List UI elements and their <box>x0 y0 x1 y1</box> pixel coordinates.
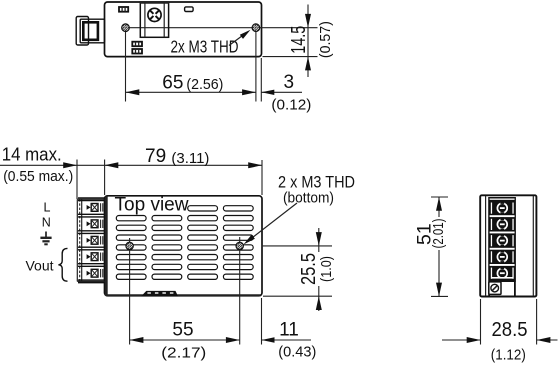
side vent bottom row 1 <box>132 42 142 47</box>
end view body outline <box>480 195 536 296</box>
terminal 2 screw clamp <box>87 221 91 226</box>
vent slot r5c3 <box>188 245 218 250</box>
svg-text:(1.12): (1.12) <box>491 346 526 363</box>
vent slot r2c2 <box>152 216 182 221</box>
dim 28.5 extension lines <box>480 299 482 345</box>
potentiometer housing <box>140 2 168 37</box>
vent slot r7c4 <box>223 264 253 269</box>
terminal strip block <box>488 197 516 282</box>
svg-text:2x M3 THD: 2x M3 THD <box>171 37 239 57</box>
potentiometer screw head <box>148 8 161 21</box>
leader arrow to screw (side) <box>229 33 246 46</box>
vent slot r7c1 <box>116 264 146 269</box>
terminal 3 screw clamp <box>87 238 91 243</box>
svg-text:14 max.: 14 max. <box>2 144 62 164</box>
earth screw <box>489 282 501 295</box>
extension lines top view <box>76 160 78 200</box>
vent slot r6c4 <box>223 255 253 260</box>
body right edge extension <box>260 58 262 102</box>
svg-text:3: 3 <box>284 72 295 93</box>
terminal separator 6 <box>78 279 105 281</box>
terminal 5 screw clamp <box>87 271 91 276</box>
svg-text:Vout: Vout <box>26 257 54 273</box>
LED window <box>185 7 194 12</box>
end terminal 3 <box>490 248 515 250</box>
vent slot r8c4 <box>223 274 253 279</box>
top view bottom edge (thick) <box>106 294 261 296</box>
vent slot r8c2 <box>152 274 182 279</box>
side vent bottom row 2 <box>132 49 142 54</box>
vent slot r5c4 <box>223 245 253 250</box>
vent slot r7c2 <box>152 264 182 269</box>
vent slot r4c3 <box>188 235 218 240</box>
dim 79 arrows <box>105 162 119 168</box>
vent slot r6c2 <box>152 255 182 260</box>
svg-text:L: L <box>44 200 51 214</box>
vent slot r4c1 <box>116 235 146 240</box>
side view body outline <box>105 2 262 57</box>
svg-text:(2.01): (2.01) <box>430 218 447 248</box>
vent slot r8c1 <box>116 274 146 279</box>
terminal block outline <box>76 199 78 281</box>
svg-text:(0.57): (0.57) <box>317 21 334 58</box>
vent slot r4c2 <box>152 235 182 240</box>
end view inner left wall <box>485 196 487 296</box>
vent slot r6c1 <box>116 255 146 260</box>
vent slot r7c3 <box>188 264 218 269</box>
dim 3 leader <box>261 91 302 93</box>
terminal separator 3 <box>78 230 105 232</box>
svg-text:(3.11): (3.11) <box>171 150 209 167</box>
dim 51 ticks <box>431 196 448 198</box>
svg-text:(2.56): (2.56) <box>186 76 223 93</box>
screw-level reference line <box>126 27 318 29</box>
terminal separator 5 <box>78 263 105 265</box>
terminal strip lower rails <box>492 277 514 279</box>
brace for Vout <box>58 248 67 281</box>
terminal separator 1 <box>78 197 105 199</box>
vent slot r3c4 <box>223 225 253 230</box>
dim 55 line <box>130 339 240 341</box>
input connector flange <box>76 17 88 46</box>
svg-text:N: N <box>42 215 51 229</box>
leader arrow to screw (top view) <box>250 203 297 240</box>
vent slot r3c3 <box>188 225 218 230</box>
end terminal 4 <box>490 264 515 266</box>
screw hole right (top view) <box>239 237 241 345</box>
svg-text:28.5: 28.5 <box>492 319 528 341</box>
dim 14.5 bottom reference <box>263 56 318 58</box>
vent slot r5c1 <box>116 245 146 250</box>
dim 25.5 top reference <box>262 245 333 247</box>
top view left edge (thick) <box>105 196 108 295</box>
end terminal 2 <box>490 232 515 234</box>
dim 11 <box>261 298 263 345</box>
vent slot r1c3 <box>188 206 218 211</box>
svg-text:25.5: 25.5 <box>298 253 320 285</box>
svg-text:14.5: 14.5 <box>288 26 310 54</box>
vent slot r6c3 <box>188 255 218 260</box>
terminal 1 screw clamp <box>87 205 91 210</box>
vent slot r3c1 <box>116 225 146 230</box>
dim 25.5 bottom reference <box>263 295 332 297</box>
end terminal 1 <box>490 215 515 217</box>
screw hole left (top view) <box>129 238 131 345</box>
svg-text:(1.0): (1.0) <box>318 256 335 282</box>
bottom label plate (trapezoid) <box>141 291 178 296</box>
vent slot r2c3 <box>188 216 218 221</box>
svg-text:(0.43): (0.43) <box>278 344 316 361</box>
terminal 4 screw clamp <box>87 254 91 259</box>
terminal separator 2 <box>78 213 105 215</box>
vent slot r4c4 <box>223 235 253 240</box>
svg-text:11: 11 <box>279 319 299 340</box>
svg-text:(bottom): (bottom) <box>283 189 334 206</box>
dim 65 line <box>126 91 256 93</box>
dim 25.5 line <box>318 228 320 311</box>
dim 14max line <box>0 164 262 166</box>
svg-text:(2.17): (2.17) <box>161 345 206 362</box>
mounting screw hole right (side view) <box>252 24 260 32</box>
dim 79 text <box>140 140 214 164</box>
vent slot r2c1 <box>116 216 146 221</box>
terminal separator 4 <box>78 246 105 248</box>
end view inner right wall <box>532 196 534 296</box>
svg-text:Top view: Top view <box>115 195 189 216</box>
input connector body <box>80 19 104 43</box>
svg-text:79: 79 <box>145 146 166 167</box>
input connector opening <box>83 22 98 40</box>
end terminal 5 <box>491 268 492 279</box>
vent slot r1c4 <box>223 206 253 211</box>
svg-text:(0.12): (0.12) <box>271 97 311 114</box>
dim 14.5 line <box>307 5 309 78</box>
vent slot r3c2 <box>152 225 182 230</box>
vent slot r5c2 <box>152 245 182 250</box>
svg-text:(0.55 max.): (0.55 max.) <box>3 168 73 185</box>
dim 28.5 line <box>442 339 481 341</box>
side vent top <box>119 7 128 12</box>
mounting screw hole left (side view) <box>122 24 130 32</box>
top view body outline <box>105 196 263 296</box>
vent slot r2c4 <box>223 216 253 221</box>
svg-text:55: 55 <box>172 319 193 340</box>
dim 51 line <box>438 197 440 296</box>
svg-text:65: 65 <box>162 72 183 93</box>
dim 65 extension line right <box>255 32 257 102</box>
vent slot r8c3 <box>188 274 218 279</box>
dim 65 extension line left <box>125 32 127 102</box>
earth symbol <box>45 232 47 238</box>
